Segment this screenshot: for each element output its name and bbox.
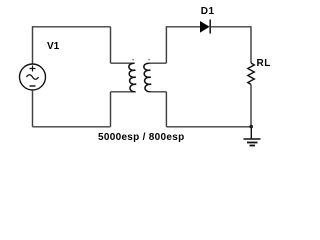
transformer secondary coil (144, 63, 151, 92)
label V1 (47, 41, 59, 52)
wire secondary bottom stub (150, 91, 167, 93)
ground stub (250, 127, 252, 139)
wire top-left horizontal (33, 26, 111, 28)
diode D1 cathode bar (209, 20, 211, 34)
wire bottom-right horizontal (166, 126, 251, 128)
label turns ratio 5000esp / 800esp (98, 132, 185, 143)
wire right vertical lower (250, 85, 252, 127)
junction dot (249, 125, 253, 129)
ground bar 1 (244, 138, 261, 140)
source sine wave (27, 75, 39, 80)
ground bar 2 (247, 142, 258, 144)
transformer secondary polarity dot (148, 59, 149, 60)
wire secondary left vertical upper (165, 26, 167, 63)
transformer primary coil (129, 63, 136, 92)
wire left vertical lower (32, 90, 34, 127)
source V1 circle (20, 64, 46, 90)
wire primary top stub (111, 62, 135, 64)
resistor RL zigzag (248, 63, 255, 85)
wire top-right horizontal (cathode side) (210, 26, 251, 28)
wire secondary left vertical lower (165, 92, 167, 127)
wire left vertical upper (32, 26, 34, 64)
wire right vertical upper (250, 26, 252, 63)
wire bottom-left horizontal (33, 126, 111, 128)
wire secondary top stub (150, 62, 167, 64)
wire top-right horizontal (anode side) (166, 26, 200, 28)
transformer primary polarity dot (132, 59, 133, 60)
wire primary right vertical lower (110, 92, 112, 127)
wire primary right vertical upper (110, 27, 112, 63)
label RL (257, 58, 271, 69)
wire primary bottom stub (111, 91, 135, 93)
source plus sign (30, 66, 36, 72)
diode D1 triangle (200, 21, 210, 33)
source minus sign (30, 85, 36, 87)
ground bar 3 (250, 145, 256, 147)
label D1 (201, 6, 215, 17)
